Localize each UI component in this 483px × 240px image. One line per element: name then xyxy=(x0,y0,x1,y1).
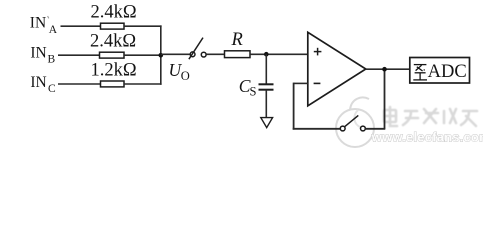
svg-text:A: A xyxy=(49,24,58,36)
switch S2 contacts and lever xyxy=(340,115,365,130)
wire op-amp inverting input xyxy=(294,82,308,84)
input label IN_C xyxy=(30,74,56,95)
wire from IN_C to resistor R3 xyxy=(58,83,101,85)
wire from IN_A to resistor R1 xyxy=(61,25,101,27)
resistor R1 2.4k (IN_A) xyxy=(101,23,125,29)
input label IN_B xyxy=(30,44,55,65)
node label U_O xyxy=(169,60,190,83)
svg-text:C: C xyxy=(48,83,56,95)
svg-text:www.elecfans.com: www.elecfans.com xyxy=(371,130,483,145)
junction node at capacitor top xyxy=(264,52,269,57)
watermark logo circle xyxy=(336,97,374,147)
capacitor C_S lead top xyxy=(265,54,267,84)
op-amp - pin mark xyxy=(314,82,321,84)
feedback wire bottom to switch S2 xyxy=(293,128,341,130)
wire from resistor R2 to bus xyxy=(124,54,162,56)
watermark url www.elecfans.com xyxy=(371,130,483,145)
junction node at output xyxy=(382,67,387,72)
capacitor C_S plates xyxy=(259,84,274,89)
wire from switch S2 to output vertical xyxy=(365,128,385,130)
resistor R3 1.2k (IN_C) xyxy=(101,81,125,87)
label C_S xyxy=(239,76,257,99)
wire from resistor R to op-amp + input xyxy=(250,53,308,55)
op-amp + pin mark xyxy=(314,48,322,56)
wire from junction to switch S1 xyxy=(161,53,190,55)
capacitor C_S lead bottom xyxy=(265,90,267,118)
junction node at bus line B xyxy=(159,53,164,58)
svg-text:IN: IN xyxy=(30,44,46,61)
ADC box xyxy=(410,58,470,84)
wire op-amp output to ADC box xyxy=(366,68,410,70)
bus wire vertical joining A B C xyxy=(160,25,162,84)
svg-text:R: R xyxy=(231,30,243,50)
stray prime mark above IN_A xyxy=(48,16,49,18)
label 至 (to) glyph strokes xyxy=(413,65,427,80)
feedback wire right vertical to output xyxy=(384,69,386,129)
svg-text:2.4kΩ: 2.4kΩ xyxy=(91,3,137,23)
svg-text:2.4kΩ: 2.4kΩ xyxy=(90,32,136,52)
op-amp U1 triangle xyxy=(308,32,366,106)
wire from resistor R3 to bus xyxy=(124,83,162,85)
svg-text:1.2kΩ: 1.2kΩ xyxy=(91,60,137,80)
watermark text 电子发烧友 xyxy=(383,106,477,126)
input label IN_A xyxy=(30,15,58,36)
ground symbol xyxy=(261,118,273,128)
svg-text:IN: IN xyxy=(30,15,46,32)
resistor R2 2.4k (IN_B) xyxy=(100,52,125,58)
svg-text:B: B xyxy=(48,54,56,66)
wire from switch S1 to resistor R xyxy=(206,53,224,55)
svg-text:O: O xyxy=(181,69,190,83)
svg-text:IN: IN xyxy=(30,74,46,91)
resistor R xyxy=(225,51,251,58)
feedback wire left vertical xyxy=(293,83,295,130)
wire from resistor R1 to bus xyxy=(124,25,162,27)
svg-text:ADC: ADC xyxy=(428,62,467,82)
wire from IN_B to resistor R2 xyxy=(58,54,100,56)
switch S1 contacts and lever xyxy=(189,38,206,60)
svg-text:S: S xyxy=(250,85,257,99)
